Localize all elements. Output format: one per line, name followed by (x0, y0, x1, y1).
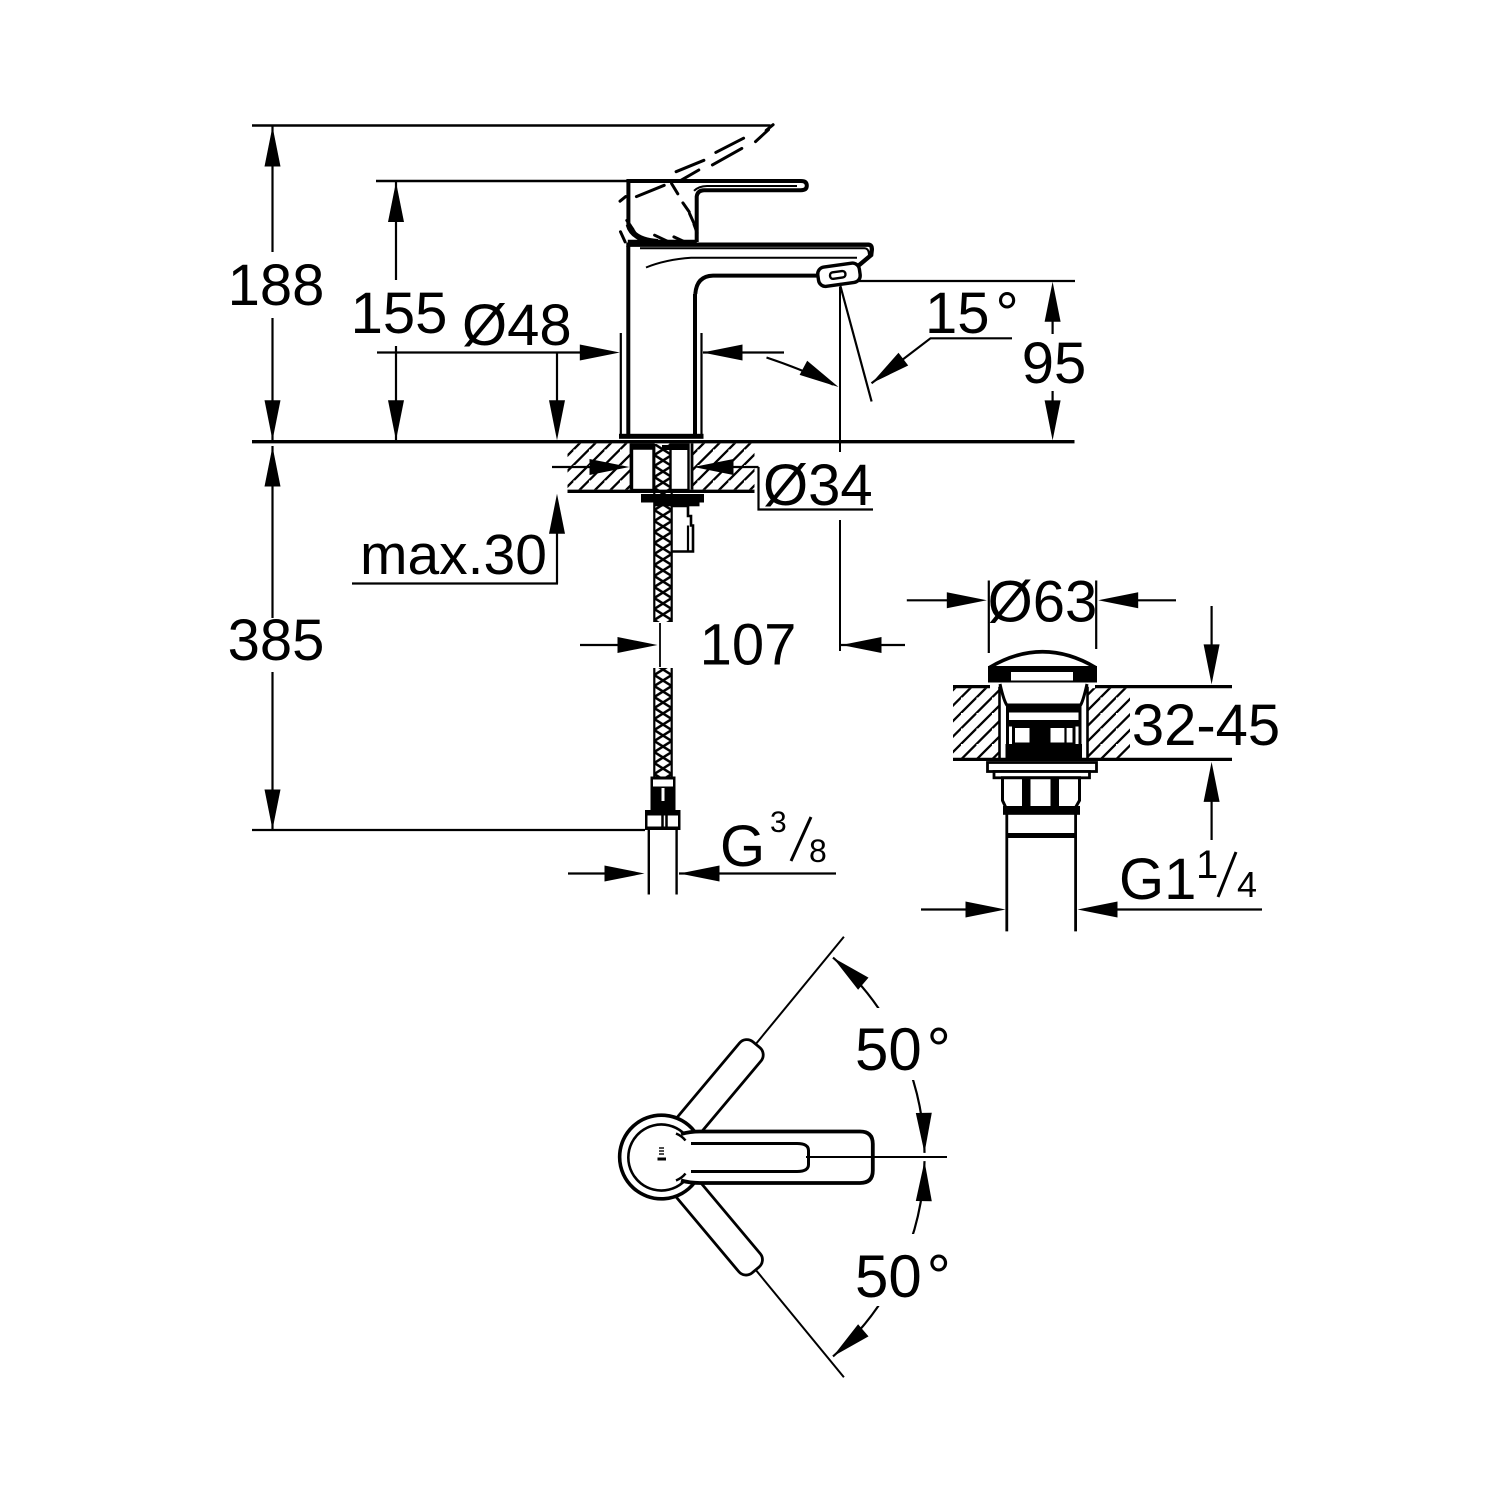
svg-text:max.30: max.30 (360, 523, 547, 587)
top view: axis line lower (755, 1269, 844, 1377)
basin deck hatch (953, 688, 1130, 758)
top view: lever rotated -50 (down) (653, 1151, 767, 1279)
svg-text:1: 1 (1196, 843, 1218, 887)
top view: lever inner slot (691, 1144, 809, 1172)
dimension G3/8 with label (568, 806, 836, 882)
drain tailpipe G1 1/4 (1007, 812, 1076, 931)
deck hole edges (1000, 687, 1088, 759)
countertop hatch and bottom (568, 443, 755, 491)
dimension 107 (spout reach) (580, 613, 905, 678)
svg-text:G1: G1 (1119, 847, 1196, 912)
top view: center line (806, 1156, 947, 1158)
faucet handle raised position (dashed) (620, 125, 773, 243)
dimension Ø34 (hole) with label box (552, 453, 873, 518)
dimension 32-45 (deck thickness range) (1130, 606, 1282, 840)
svg-text:15°: 15° (925, 281, 1019, 346)
stream line 15 degrees (840, 283, 872, 402)
svg-text:32-45: 32-45 (1132, 693, 1280, 758)
svg-text:107: 107 (700, 613, 797, 678)
hose end crimp collar (651, 777, 676, 811)
outlet axis vertical reference line (839, 287, 841, 651)
dimension 95 (outlet height) (858, 281, 1086, 440)
15 degree leader with arrow and label (872, 281, 1019, 383)
svg-text:4: 4 (1237, 864, 1257, 905)
mounting sleeve left (632, 445, 654, 491)
label 50 deg lower (850, 1234, 958, 1310)
hose nut G3/8 (645, 810, 681, 830)
top view: 50 deg arc upper with arrows (833, 958, 932, 1153)
drain pop-up cap dome (988, 652, 1097, 683)
top view: lever outline (horizontal) (681, 1132, 873, 1184)
drain internal mechanism (1006, 704, 1083, 759)
svg-text:50°: 50° (855, 1243, 951, 1310)
braided supply hose (upper segment through deck) (654, 444, 671, 622)
svg-text:8: 8 (809, 833, 827, 869)
G3/8 connector tube (649, 830, 677, 895)
svg-text:95: 95 (1022, 331, 1087, 396)
basin deck bottom line (953, 758, 1232, 761)
label 50 deg upper (850, 1008, 958, 1083)
top view: 50 deg arc lower with arrows (833, 1161, 932, 1356)
drain washer under deck (988, 763, 1097, 778)
dimension Ø48 (body diameter) with extension lines (377, 293, 784, 438)
base flange (619, 434, 704, 439)
svg-text:Ø48: Ø48 (462, 293, 572, 358)
svg-text:G: G (720, 814, 765, 879)
svg-text:385: 385 (228, 608, 325, 673)
faucet handle (side view, solid) (628, 179, 807, 242)
countertop (side view) top line (252, 440, 1075, 443)
top view: faucet body circle inner (628, 1125, 691, 1191)
braided supply hose (lower segment) (654, 668, 671, 777)
hose connection fitting (673, 506, 694, 552)
curved angle arrow for 15 degrees (767, 358, 839, 388)
top view: GROHE mark (658, 1148, 667, 1161)
dimension 188 (overall height) (228, 126, 771, 441)
svg-text:50°: 50° (855, 1016, 951, 1083)
drain locknut (1003, 778, 1081, 815)
dimension 385 (hose length below deck) (228, 446, 645, 830)
svg-text:188: 188 (228, 253, 325, 318)
aerator outlet (817, 262, 861, 287)
dimension Ø63 (cap diameter) (907, 570, 1176, 654)
top view: fillets between circle and lever (676, 1134, 686, 1141)
hose break centerline (659, 623, 661, 667)
svg-text:Ø34: Ø34 (763, 453, 873, 518)
svg-text:3: 3 (770, 806, 787, 839)
svg-text:155: 155 (351, 281, 448, 346)
drain body funnel (1000, 684, 1087, 757)
dimension 155 (height to spout top) (351, 181, 629, 440)
washer plate under deck (641, 494, 704, 503)
svg-text:Ø63: Ø63 (988, 570, 1098, 635)
top view: lever rotated +50 (up) (653, 1036, 767, 1164)
top view: axis line upper (755, 937, 844, 1045)
top view: faucet body circle outer (620, 1115, 695, 1199)
faucet body and spout (side view) (626, 245, 872, 435)
mounting sleeve right (671, 445, 689, 491)
dimension G1 1/4 with label (921, 843, 1262, 918)
dimension max.30 (deck thickness) (352, 352, 565, 588)
basin deck top lines (953, 685, 1232, 688)
